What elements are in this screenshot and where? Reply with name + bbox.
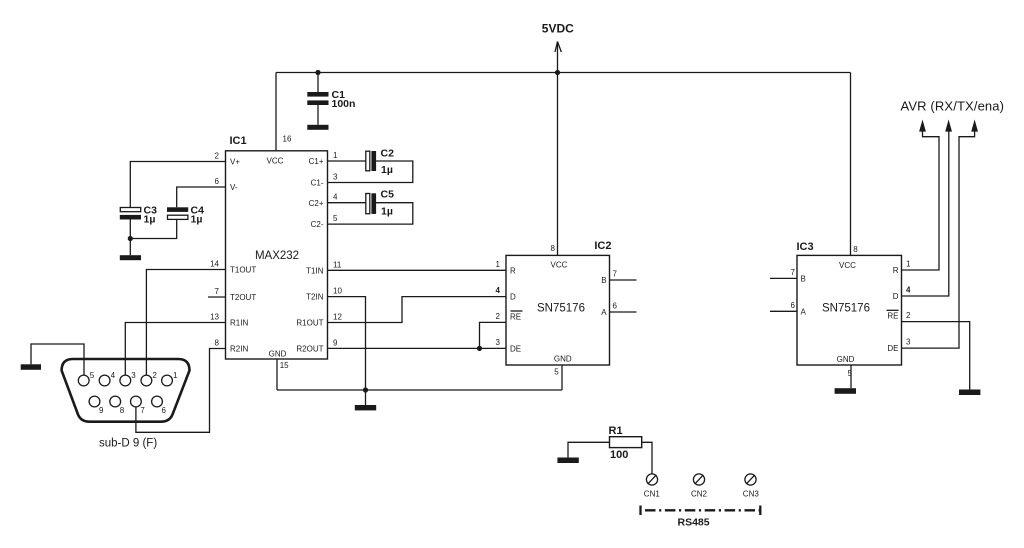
wire IC2 GND pin 5 <box>561 365 563 390</box>
svg-text:R2OUT: R2OUT <box>296 345 323 354</box>
connector CN1 <box>644 474 661 498</box>
svg-text:RE: RE <box>510 313 521 322</box>
svg-text:9: 9 <box>99 406 104 415</box>
svg-text:3: 3 <box>496 338 501 347</box>
wire R1 right to CN1 <box>642 442 652 474</box>
wire ground stub <box>365 390 367 405</box>
wire R2OUT to IC2 DE <box>328 347 507 349</box>
ground center <box>355 405 376 410</box>
svg-text:2: 2 <box>152 371 157 380</box>
svg-text:RE: RE <box>887 312 898 321</box>
svg-text:6: 6 <box>215 177 220 186</box>
wire ground to sub-D pin 5 <box>31 344 84 375</box>
connector pin 7 <box>131 396 142 407</box>
wire T2OUT stub <box>208 296 226 298</box>
svg-text:V-: V- <box>230 183 238 192</box>
svg-text:1: 1 <box>496 260 501 269</box>
svg-text:100: 100 <box>610 449 628 461</box>
node junction C3/C4 ground <box>128 236 133 241</box>
svg-text:6: 6 <box>613 302 618 311</box>
wire C5 to pin 5 C2- <box>328 203 413 224</box>
svg-text:12: 12 <box>333 313 342 322</box>
svg-text:VCC: VCC <box>267 157 284 166</box>
svg-text:C1+: C1+ <box>309 157 324 166</box>
svg-text:AVR (RX/TX/ena): AVR (RX/TX/ena) <box>901 99 1005 114</box>
svg-text:4: 4 <box>906 286 911 295</box>
svg-text:11: 11 <box>333 260 342 269</box>
node junction RE/DE <box>477 346 482 351</box>
svg-text:SN75176: SN75176 <box>822 303 870 315</box>
svg-text:10: 10 <box>333 287 342 296</box>
connector pin 2 <box>141 375 152 386</box>
svg-text:D: D <box>893 292 899 301</box>
svg-text:7: 7 <box>140 406 145 415</box>
svg-text:5VDC: 5VDC <box>542 22 574 36</box>
connector CN2 <box>691 474 708 498</box>
wire IC3 RE pin 2 to ground <box>902 322 970 390</box>
svg-text:R: R <box>893 266 899 275</box>
svg-text:5: 5 <box>333 214 338 223</box>
svg-text:7: 7 <box>613 270 618 279</box>
svg-text:T2IN: T2IN <box>306 293 324 302</box>
wire R1OUT to IC2 D <box>328 297 507 323</box>
ground below C3 <box>120 255 141 260</box>
svg-text:1µ: 1µ <box>144 213 156 225</box>
svg-text:100n: 100n <box>332 98 356 110</box>
svg-text:CN2: CN2 <box>691 489 708 498</box>
svg-text:2: 2 <box>906 311 911 320</box>
svg-text:5: 5 <box>554 367 559 376</box>
svg-text:7: 7 <box>215 287 220 296</box>
svg-text:IC2: IC2 <box>594 240 611 252</box>
svg-text:C1-: C1- <box>311 179 324 188</box>
svg-text:IC3: IC3 <box>797 241 814 253</box>
svg-text:RS485: RS485 <box>678 516 710 528</box>
ground below IC3 <box>835 388 856 394</box>
wire IC3 R pin 1 to AVR RX <box>902 132 940 271</box>
wire R1IN to sub-D pin 3 <box>125 323 225 376</box>
svg-text:2: 2 <box>496 312 501 321</box>
svg-text:VCC: VCC <box>839 261 856 270</box>
svg-text:14: 14 <box>210 260 219 269</box>
connector pin 1 <box>162 375 173 386</box>
wire V+ pin 2 <box>130 162 225 208</box>
svg-text:C2+: C2+ <box>309 199 324 208</box>
svg-text:R2IN: R2IN <box>230 345 248 354</box>
node RS485 bus dimension line <box>641 506 761 529</box>
wire IC1 GND pin 15 <box>276 359 278 390</box>
svg-text:T1IN: T1IN <box>306 266 324 275</box>
svg-text:8: 8 <box>120 406 125 415</box>
power 5VDC <box>542 22 574 256</box>
svg-text:1: 1 <box>173 371 178 380</box>
wire IC3 D pin 4 to AVR TX <box>902 132 949 297</box>
connector pin 3 <box>120 375 131 386</box>
svg-text:C2: C2 <box>381 147 395 159</box>
svg-text:R1: R1 <box>609 425 623 437</box>
svg-text:8: 8 <box>853 245 858 254</box>
svg-text:1µ: 1µ <box>191 213 203 225</box>
node junction ground rail <box>363 387 368 392</box>
wire pin 1 C1+ <box>328 160 366 162</box>
svg-text:13: 13 <box>210 313 219 322</box>
svg-text:C2-: C2- <box>311 220 324 229</box>
svg-text:R1OUT: R1OUT <box>296 319 323 328</box>
svg-text:15: 15 <box>280 361 289 370</box>
svg-text:GND: GND <box>269 349 287 358</box>
svg-text:SN75176: SN75176 <box>537 302 585 314</box>
wire R1 left to ground <box>568 442 610 457</box>
svg-text:3: 3 <box>131 371 136 380</box>
svg-text:A: A <box>601 308 607 317</box>
svg-text:6: 6 <box>791 301 796 310</box>
wire rail left drop to IC1 pin 16 <box>275 73 277 151</box>
capacitor C2 1u <box>366 147 394 176</box>
wire T1OUT to sub-D pin 2 <box>146 270 225 376</box>
resistor R1 <box>609 425 642 461</box>
svg-text:9: 9 <box>333 338 338 347</box>
wire C4 to junction <box>130 220 176 239</box>
svg-text:DE: DE <box>510 345 521 354</box>
wire T2IN to ground rail <box>328 297 366 390</box>
svg-text:CN3: CN3 <box>743 489 760 498</box>
wire pin 4 C2+ <box>328 202 366 204</box>
wire IC3 A stub <box>770 310 797 312</box>
wire C3 to ground junction <box>129 220 131 256</box>
svg-text:sub-D 9 (F): sub-D 9 (F) <box>99 438 157 450</box>
svg-text:1: 1 <box>906 260 911 269</box>
svg-text:4: 4 <box>496 286 501 295</box>
svg-text:VCC: VCC <box>551 260 568 269</box>
capacitor C1 100n <box>307 73 355 125</box>
svg-text:4: 4 <box>333 193 338 202</box>
svg-text:DE: DE <box>887 344 898 353</box>
wire IC3 DE pin 3 to AVR ena <box>902 132 975 349</box>
node arrow ena <box>971 120 978 132</box>
svg-text:T1OUT: T1OUT <box>230 266 256 275</box>
node arrow TX <box>945 120 952 132</box>
wire ground rail <box>277 389 562 391</box>
wire IC2 A stub <box>610 311 637 313</box>
svg-text:V+: V+ <box>230 158 240 167</box>
svg-text:IC1: IC1 <box>230 135 247 147</box>
wire IC3 B stub <box>770 277 797 279</box>
wire V- pin 6 <box>177 187 226 207</box>
ground left <box>21 364 41 370</box>
svg-text:MAX232: MAX232 <box>255 250 299 262</box>
svg-text:5: 5 <box>848 369 853 378</box>
svg-text:3: 3 <box>906 338 911 347</box>
svg-text:B: B <box>801 275 806 284</box>
ground right <box>959 390 980 396</box>
svg-text:R: R <box>510 266 516 275</box>
wire top 5V rail <box>276 72 851 74</box>
svg-text:7: 7 <box>791 268 796 277</box>
svg-text:1µ: 1µ <box>381 164 393 176</box>
svg-text:R1IN: R1IN <box>230 319 248 328</box>
connector pin 9 <box>89 396 100 407</box>
svg-text:2: 2 <box>215 152 220 161</box>
svg-text:16: 16 <box>283 135 292 144</box>
svg-text:4: 4 <box>111 371 116 380</box>
svg-text:C5: C5 <box>381 189 395 201</box>
wire rail right drop to IC3 pin 8 <box>850 73 852 256</box>
capacitor C3 1u <box>120 204 157 225</box>
ground below R1 <box>557 458 578 464</box>
node junction rail/C1 <box>315 70 320 75</box>
svg-text:A: A <box>801 307 807 316</box>
transistor IC3 SN75176 box <box>797 241 902 365</box>
svg-text:8: 8 <box>215 339 220 348</box>
svg-text:B: B <box>601 276 606 285</box>
svg-text:8: 8 <box>551 244 556 253</box>
op-amp IC1 MAX232 box <box>226 135 328 371</box>
svg-text:D: D <box>510 293 516 302</box>
ground below C1 <box>307 125 328 130</box>
node junction rail/5VDC <box>555 70 560 75</box>
capacitor C4 1u <box>167 204 204 225</box>
svg-text:6: 6 <box>162 406 167 415</box>
connector pin 8 <box>110 396 121 407</box>
svg-text:5: 5 <box>90 371 95 380</box>
transistor IC2 SN75176 box <box>506 240 612 365</box>
connector pin 6 <box>152 396 163 407</box>
svg-text:3: 3 <box>333 173 338 182</box>
svg-text:GND: GND <box>554 355 572 364</box>
svg-text:T2OUT: T2OUT <box>230 293 256 302</box>
wire IC3 GND pin 5 <box>850 365 852 388</box>
capacitor C5 1u <box>366 189 394 218</box>
wire T1IN to IC2 R <box>328 269 507 271</box>
wire IC2 B stub <box>610 279 637 281</box>
wire R2IN to sub-D pin 7 <box>136 349 226 433</box>
svg-text:CN1: CN1 <box>644 489 661 498</box>
wire RE tap IC2 <box>480 322 507 348</box>
node arrow RX <box>919 120 926 132</box>
svg-text:1: 1 <box>333 151 338 160</box>
connector CN3 <box>743 474 760 498</box>
svg-text:GND: GND <box>837 355 855 364</box>
svg-text:1µ: 1µ <box>381 206 393 218</box>
connector pin 4 <box>99 375 110 386</box>
wire C2 to pin 3 C1- <box>328 161 413 183</box>
connector pin 5 <box>78 375 89 386</box>
connector sub-D 9 (F) shell <box>62 359 190 422</box>
